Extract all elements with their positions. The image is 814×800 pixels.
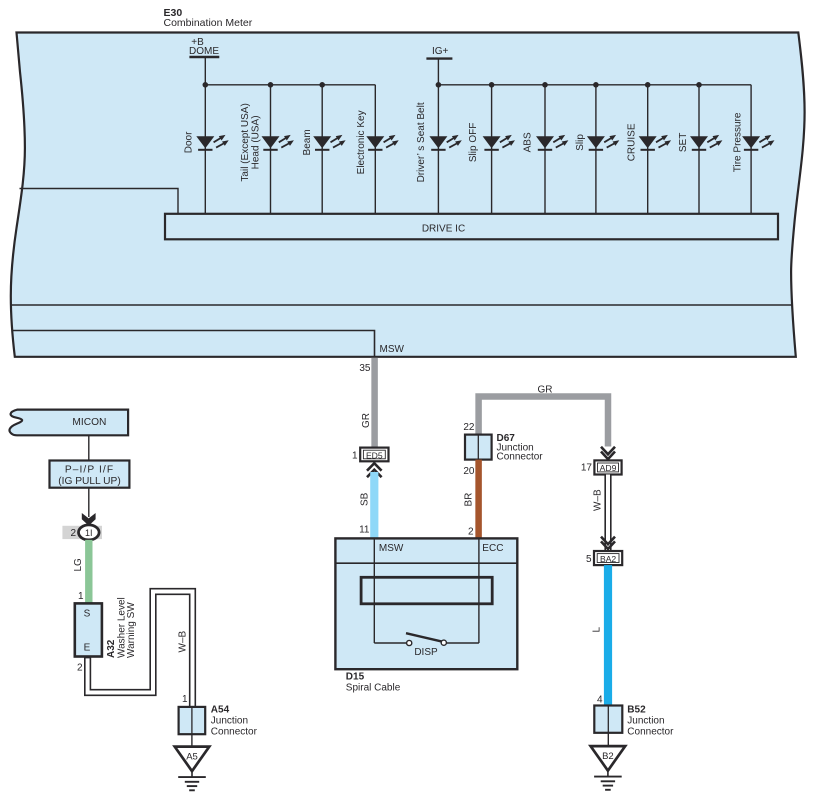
svg-text:20: 20 xyxy=(463,466,475,477)
label A54 Junction Connector xyxy=(211,704,258,737)
svg-text:Beam: Beam xyxy=(302,129,313,155)
svg-text:Connector: Connector xyxy=(497,452,544,463)
svg-text:1: 1 xyxy=(78,591,84,602)
svg-text:ED5: ED5 xyxy=(366,450,383,460)
connector BA2 xyxy=(594,551,622,565)
svg-text:B52: B52 xyxy=(627,704,646,715)
svg-text:MICON: MICON xyxy=(72,417,106,428)
svg-text:2: 2 xyxy=(468,526,474,537)
svg-text:DISP: DISP xyxy=(414,647,438,658)
internal line MSW xyxy=(373,563,375,643)
internal line ECC xyxy=(478,563,480,643)
svg-text:D15: D15 xyxy=(346,671,365,682)
svg-text:LG: LG xyxy=(73,558,84,572)
svg-text:4: 4 xyxy=(597,694,603,705)
connector ED5 xyxy=(360,448,388,462)
svg-text:Head (USA): Head (USA) xyxy=(251,115,262,169)
svg-text:1: 1 xyxy=(182,694,188,705)
bus wire +B xyxy=(205,84,375,86)
svg-text:ECC: ECC xyxy=(482,543,503,554)
wire L to B52 xyxy=(604,565,612,706)
svg-text:5: 5 xyxy=(586,554,592,565)
LED Electronic Key xyxy=(366,135,398,150)
svg-text:2: 2 xyxy=(70,528,76,539)
wire Driver Seat Belt xyxy=(437,85,439,214)
svg-text:L: L xyxy=(591,627,602,633)
svg-text:Driver’ s Seat Belt: Driver’ s Seat Belt xyxy=(416,102,427,182)
svg-text:DRIVE IC: DRIVE IC xyxy=(422,224,465,235)
arrow into node xyxy=(82,513,96,526)
svg-text:W–B: W–B xyxy=(592,489,603,511)
svg-text:GR: GR xyxy=(538,385,553,396)
junction connector A54 xyxy=(179,707,206,734)
LED CRUISE xyxy=(639,135,671,150)
wire SET xyxy=(698,85,700,214)
MICON box xyxy=(9,410,128,436)
wire P-I/P to node xyxy=(88,488,90,517)
wire Electronic Key xyxy=(374,85,376,214)
LED Slip xyxy=(587,135,619,150)
svg-text:W–B: W–B xyxy=(178,631,189,653)
svg-text:Tire Pressure: Tire Pressure xyxy=(733,112,744,172)
svg-text:Slip: Slip xyxy=(575,134,586,151)
power rail +B xyxy=(189,37,219,85)
svg-text:CRUISE: CRUISE xyxy=(627,123,638,161)
svg-text:BR: BR xyxy=(464,493,475,507)
svg-text:Connector: Connector xyxy=(211,727,258,738)
wire A54 to ground xyxy=(191,734,193,746)
svg-text:22: 22 xyxy=(463,422,475,433)
wire ABS xyxy=(544,85,546,214)
junction connector D67 xyxy=(465,435,492,460)
wire W-B between AD9 and BA2 xyxy=(604,475,611,552)
svg-text:BA2: BA2 xyxy=(600,554,616,564)
svg-text:Spiral Cable: Spiral Cable xyxy=(346,683,401,694)
wire Beam xyxy=(321,85,323,214)
svg-text:AD9: AD9 xyxy=(600,463,617,473)
wire BR to spiral cable xyxy=(475,460,482,539)
label B52 Junction Connector xyxy=(627,704,674,737)
svg-text:Junction: Junction xyxy=(627,716,664,727)
wire LG to A32 xyxy=(85,540,92,604)
LED Slip OFF xyxy=(483,135,515,150)
svg-text:11: 11 xyxy=(359,525,370,536)
spiral coil rectangle xyxy=(361,577,492,604)
ground B2 xyxy=(591,746,626,790)
bus wire IG+ xyxy=(438,84,751,86)
svg-text:2: 2 xyxy=(77,663,83,674)
wire Door xyxy=(204,85,206,214)
connector marker above BA2 xyxy=(601,537,615,549)
connector marker above AD9 xyxy=(601,447,615,459)
wire B52 to ground xyxy=(607,733,609,746)
junction dots on buses xyxy=(203,82,702,88)
wire Slip OFF xyxy=(491,85,493,214)
LED Beam xyxy=(313,135,345,150)
wire SB to spiral cable xyxy=(370,472,378,539)
wire GR jumper D67 to AD9 xyxy=(479,397,608,447)
svg-text:SB: SB xyxy=(360,492,371,506)
connector AD9 xyxy=(594,460,621,474)
svg-text:S: S xyxy=(84,609,91,620)
junction connector B52 xyxy=(594,706,622,733)
wire W-B from A32 to A54 xyxy=(88,592,193,707)
svg-text:A54: A54 xyxy=(211,704,230,715)
svg-text:Door: Door xyxy=(184,131,195,153)
cell MSW xyxy=(374,538,404,563)
inner divider line y=305 xyxy=(11,304,792,306)
spiral cable D15 box xyxy=(335,538,517,669)
svg-text:ABS: ABS xyxy=(522,132,533,152)
wire MICON to P-I/P xyxy=(88,435,90,460)
switch A32 Washer Level Warning SW xyxy=(75,603,102,656)
svg-text:GR: GR xyxy=(361,413,372,428)
svg-text:1I: 1I xyxy=(85,528,93,538)
svg-text:Tail (Except USA): Tail (Except USA) xyxy=(240,103,251,181)
combination meter E30 body xyxy=(11,33,805,357)
svg-text:Combination Meter: Combination Meter xyxy=(164,17,253,29)
wire CRUISE xyxy=(647,85,649,214)
connector marker below ED5 xyxy=(367,463,382,477)
label D67 Junction Connector xyxy=(497,433,544,463)
svg-text:MSW: MSW xyxy=(380,344,405,355)
svg-text:35: 35 xyxy=(359,363,371,374)
power rail IG+ xyxy=(426,46,452,85)
ground A5 xyxy=(175,747,210,791)
LED ABS xyxy=(536,135,568,150)
svg-text:E: E xyxy=(84,643,91,654)
inner step line y=330 to MSW exit xyxy=(13,331,375,357)
svg-text:Slip OFF: Slip OFF xyxy=(468,123,479,162)
svg-text:A32: A32 xyxy=(106,639,117,658)
LED Tail/Head xyxy=(262,135,294,150)
wire Slip xyxy=(595,85,597,214)
switch DISP xyxy=(374,633,479,658)
node oval 1I xyxy=(79,525,100,540)
wire GR from meter to ED5 xyxy=(371,358,378,449)
cell ECC xyxy=(479,538,504,563)
block P-I/P I/F xyxy=(50,461,130,488)
svg-text:(IG PULL UP): (IG PULL UP) xyxy=(58,476,120,487)
svg-text:B2: B2 xyxy=(602,751,614,762)
LED Door xyxy=(196,135,228,150)
LED Driver Seat Belt xyxy=(429,135,461,150)
svg-text:Connector: Connector xyxy=(627,727,674,738)
svg-text:Warning SW: Warning SW xyxy=(126,602,137,658)
svg-text:17: 17 xyxy=(581,463,593,474)
svg-text:MSW: MSW xyxy=(379,543,404,554)
LED SET xyxy=(690,135,722,150)
svg-text:P–I/P I/F: P–I/P I/F xyxy=(65,465,114,476)
svg-text:Electronic Key: Electronic Key xyxy=(356,110,367,174)
DRIVE IC box xyxy=(165,214,778,240)
label Tail (Except USA) / Head (USA) xyxy=(240,103,262,181)
wire Tire Pressure xyxy=(750,85,752,214)
LED Tire Pressure xyxy=(742,135,774,150)
svg-text:IG+: IG+ xyxy=(432,46,449,57)
svg-text:DOME: DOME xyxy=(189,46,219,57)
label D15 Spiral Cable xyxy=(346,671,401,693)
highlight band xyxy=(62,526,102,539)
inner step line y=188 to DRIVE IC xyxy=(20,189,179,214)
svg-text:Junction: Junction xyxy=(211,716,248,727)
svg-text:SET: SET xyxy=(678,133,689,152)
svg-text:A5: A5 xyxy=(186,751,198,762)
svg-text:1: 1 xyxy=(352,450,358,461)
wire Tail/Head xyxy=(270,85,272,214)
